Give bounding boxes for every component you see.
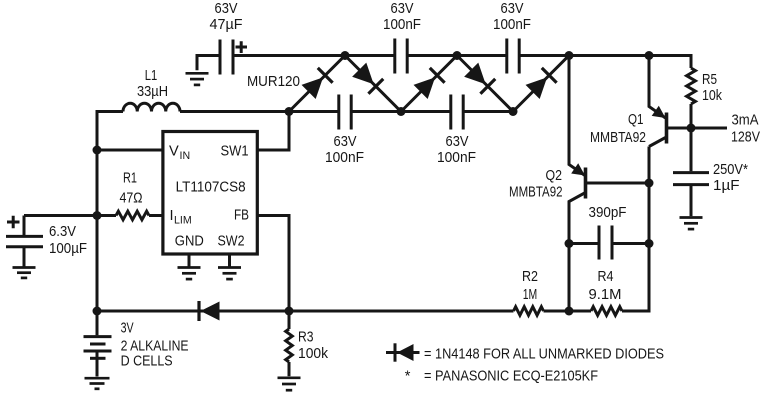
svg-text:100nF: 100nF (325, 150, 364, 166)
svg-text:Q2: Q2 (546, 168, 563, 184)
svg-text:100nF: 100nF (383, 17, 421, 33)
svg-text:GND: GND (175, 234, 204, 250)
svg-text:6.3V: 6.3V (49, 224, 76, 240)
svg-text:100µF: 100µF (49, 241, 87, 257)
svg-text:R3: R3 (298, 330, 314, 346)
svg-text:33µH: 33µH (137, 84, 168, 100)
svg-text:390pF: 390pF (589, 205, 627, 221)
svg-text:I: I (170, 208, 174, 224)
svg-text:SW1: SW1 (221, 144, 249, 160)
svg-text:250V*: 250V* (713, 162, 748, 178)
svg-text:3mA: 3mA (732, 113, 759, 129)
svg-text:FB: FB (234, 208, 249, 224)
svg-text:63V: 63V (391, 1, 414, 17)
svg-text:MMBTA92: MMBTA92 (590, 130, 646, 146)
svg-text:10k: 10k (702, 88, 723, 104)
svg-text:MUR120: MUR120 (247, 74, 300, 90)
svg-text:= 1N4148 FOR ALL UNMARKED DIOD: = 1N4148 FOR ALL UNMARKED DIODES (424, 347, 664, 363)
svg-text:*: * (405, 369, 411, 385)
svg-text:3V: 3V (121, 321, 134, 337)
svg-text:1M: 1M (523, 287, 538, 303)
svg-text:R5: R5 (702, 72, 717, 88)
svg-text:1µF: 1µF (713, 178, 740, 194)
svg-text:47Ω: 47Ω (120, 191, 143, 207)
svg-text:SW2: SW2 (218, 234, 245, 250)
svg-text:D CELLS: D CELLS (121, 354, 173, 370)
svg-text:100k: 100k (298, 346, 329, 362)
svg-text:63V: 63V (501, 1, 524, 17)
svg-text:V: V (169, 144, 179, 160)
svg-text:R2: R2 (522, 269, 538, 285)
svg-text:L1: L1 (145, 68, 158, 84)
svg-text:63V: 63V (446, 134, 469, 150)
svg-text:2 ALKALINE: 2 ALKALINE (121, 339, 189, 355)
svg-text:MMBTA92: MMBTA92 (509, 185, 563, 201)
svg-text:100nF: 100nF (437, 150, 476, 166)
svg-text:Q1: Q1 (628, 112, 644, 128)
svg-text:R4: R4 (598, 269, 614, 285)
svg-text:LT1107CS8: LT1107CS8 (176, 180, 246, 196)
svg-text:LIM: LIM (174, 215, 192, 227)
svg-text:= PANASONIC ECQ-E2105KF: = PANASONIC ECQ-E2105KF (424, 369, 598, 385)
svg-text:R1: R1 (123, 171, 137, 187)
svg-text:IN: IN (180, 150, 191, 162)
svg-text:63V: 63V (215, 1, 238, 17)
svg-text:9.1M: 9.1M (589, 287, 622, 303)
svg-text:47µF: 47µF (210, 17, 243, 33)
svg-text:100nF: 100nF (493, 17, 531, 33)
svg-text:128V: 128V (731, 130, 760, 146)
svg-text:63V: 63V (334, 134, 357, 150)
